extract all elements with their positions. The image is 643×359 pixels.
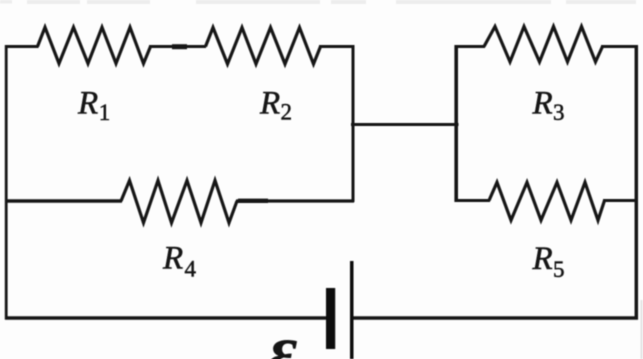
- thick dash after R4: [238, 199, 268, 203]
- thick dash node: [172, 44, 187, 49]
- faint cropped remnants top: [0, 0, 636, 4]
- wire right side of left box: [352, 45, 355, 202]
- wire bottom right: [352, 316, 638, 320]
- label R2: [259, 86, 292, 125]
- wire right vertical: [635, 45, 639, 320]
- svg-text:1: 1: [99, 100, 111, 125]
- svg-text:R: R: [532, 241, 553, 277]
- svg-text:4: 4: [185, 257, 197, 282]
- wire middle connector: [351, 123, 459, 126]
- wire top of right box right: [601, 45, 638, 48]
- wire top right of R2: [319, 45, 354, 48]
- wire bottom of right box right: [603, 199, 638, 202]
- wire between R1 and R2: [149, 45, 206, 48]
- wire bottom of right box left: [456, 199, 491, 202]
- wire left vertical: [5, 45, 8, 320]
- label R1: [77, 86, 110, 125]
- battery positive plate (thin long): [350, 261, 354, 359]
- svg-text:5: 5: [553, 257, 565, 282]
- svg-text:R: R: [162, 241, 183, 277]
- svg-text:R: R: [77, 86, 98, 122]
- resistor R3: [484, 27, 603, 62]
- svg-text:R: R: [532, 86, 553, 122]
- resistor R1: [38, 27, 151, 63]
- resistor R5: [489, 182, 605, 220]
- resistor R4: [121, 181, 237, 223]
- wire R4 row left: [5, 199, 122, 202]
- wire bottom left: [5, 316, 327, 320]
- edge artifact right: [641, 300, 643, 359]
- svg-text:R: R: [259, 86, 280, 122]
- label R4: [162, 241, 197, 282]
- wire R4 row right: [236, 199, 354, 202]
- wire top of right box left: [456, 45, 486, 48]
- label R5: [532, 241, 565, 282]
- label EMF epsilon: [268, 310, 298, 359]
- svg-text:ε: ε: [268, 310, 298, 359]
- svg-text:3: 3: [553, 100, 565, 125]
- wire top left: [5, 45, 39, 48]
- svg-text:2: 2: [281, 100, 293, 125]
- battery negative plate (thick short): [326, 288, 335, 349]
- label R3: [532, 86, 565, 126]
- wire left side of right box: [454, 45, 458, 202]
- resistor R2: [206, 28, 321, 65]
